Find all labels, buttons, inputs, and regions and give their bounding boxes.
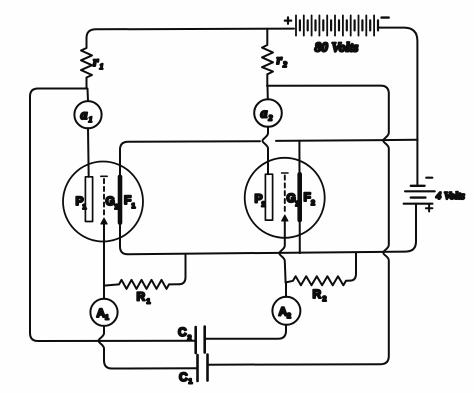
- svg-text:2: 2: [323, 296, 327, 303]
- capacitor C1: [196, 355, 199, 381]
- tube V1 envelope: [63, 162, 143, 242]
- svg-text:C: C: [178, 325, 187, 339]
- svg-text:1: 1: [132, 203, 136, 210]
- resistor r2: [262, 29, 273, 86]
- svg-text:2: 2: [311, 200, 315, 207]
- wire 80V minus terminal down to 4V battery top: [378, 28, 417, 186]
- meter A1: [103, 286, 105, 299]
- filament F1: [118, 177, 123, 223]
- svg-text:2: 2: [262, 202, 266, 209]
- wire C2 right plate to meter A2 bottom: [205, 325, 286, 339]
- meter a1: [87, 89, 90, 102]
- meter A2: [285, 283, 287, 297]
- wire filament F1 top to top heater bus: [120, 141, 260, 177]
- wire C1 right plate right, up the right riser with two hops, to a2/r2 junction: [208, 86, 389, 365]
- filament F2: [297, 174, 302, 220]
- resistor R1 grid leak: [104, 280, 180, 289]
- svg-text:2: 2: [188, 335, 192, 342]
- wire grid G1 down to R1/A1 junction: [103, 223, 105, 286]
- svg-text:2: 2: [287, 313, 291, 320]
- svg-text:1: 1: [83, 204, 87, 211]
- svg-text:R: R: [137, 290, 146, 304]
- resistor R2 grid leak: [286, 276, 351, 285]
- svg-text:r: r: [277, 53, 283, 68]
- battery B2 plus sign: [426, 205, 433, 211]
- svg-text:1: 1: [89, 115, 93, 124]
- wire filament F2 top riser to top heater bus: [298, 141, 300, 175]
- svg-text:G: G: [287, 191, 296, 205]
- wire filament F2 bottom riser to bottom heater bus: [299, 220, 301, 253]
- wire top bus from r1 top to 80V battery plus: [87, 29, 295, 40]
- wire grid G2 down with hop over bottom heater bus to R2/A2 junction: [279, 220, 285, 283]
- svg-text:a: a: [261, 107, 268, 122]
- plate P2: [265, 174, 272, 220]
- svg-text:a: a: [81, 108, 88, 123]
- svg-text:1: 1: [100, 62, 104, 71]
- svg-text:R: R: [313, 287, 322, 301]
- plate P1: [85, 177, 92, 222]
- tube V2 envelope: [245, 158, 325, 238]
- wire a1 to plate P1: [87, 128, 90, 177]
- svg-text:F: F: [304, 190, 311, 204]
- wire A1 bottom with hop over C2 line, down to C1 left lead: [99, 326, 198, 369]
- wire filament F1 bottom to bottom heater bus: [120, 204, 416, 255]
- grid G1 (tick, dashed line, arrow): [101, 175, 107, 177]
- svg-text:1: 1: [105, 315, 109, 322]
- battery B2 minus sign: [426, 177, 432, 179]
- svg-text:2: 2: [268, 114, 273, 123]
- battery B1 minus sign: [382, 16, 389, 18]
- svg-text:80 Volts: 80 Volts: [315, 40, 359, 55]
- wire left loop: from r1/a1 junction left, down, and bottom run to C2: [30, 89, 196, 342]
- svg-text:1: 1: [147, 299, 151, 306]
- svg-text:4 Volts: 4 Volts: [435, 191, 465, 202]
- svg-text:F: F: [124, 193, 131, 207]
- svg-text:G: G: [106, 194, 115, 208]
- svg-text:r: r: [93, 55, 99, 70]
- battery B1 plus sign: [285, 17, 291, 23]
- battery B1 80 Volts cells: [296, 15, 378, 35]
- battery B2 4 Volts cells: [411, 185, 425, 187]
- capacitor C2: [194, 327, 197, 353]
- meter a2: [267, 86, 269, 99]
- wire a2 to plate P2 with hop over top heater bus: [263, 127, 269, 174]
- svg-text:1: 1: [189, 379, 193, 386]
- wire top heater bus right section to 4V negative node: [276, 140, 418, 141]
- svg-text:2: 2: [282, 60, 287, 69]
- grid G2 (tick, dashed line, arrow): [282, 172, 288, 174]
- svg-text:C: C: [179, 370, 188, 384]
- resistor r1: [81, 38, 92, 89]
